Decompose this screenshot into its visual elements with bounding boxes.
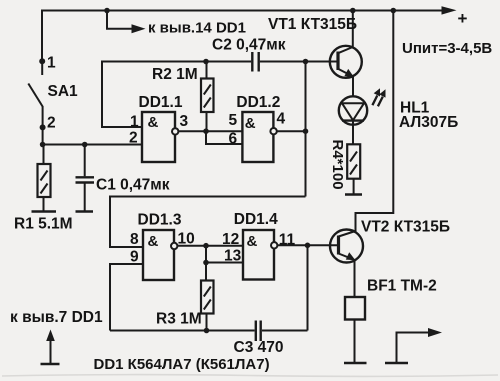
gate DD1.2 xyxy=(242,112,273,162)
switch SA1 lever xyxy=(28,84,42,107)
resistor R1 xyxy=(38,164,51,197)
node junction pin10/pin12 xyxy=(203,243,209,249)
wire pin3 output row xyxy=(179,130,243,132)
wire pin4 output xyxy=(277,130,306,132)
svg-text:8: 8 xyxy=(130,231,139,248)
svg-text:C1 0,47мк: C1 0,47мк xyxy=(96,177,170,194)
wire VT2 emitter to BF1 xyxy=(354,260,356,298)
gate DD1.4 output bubble xyxy=(271,242,277,248)
svg-text:6: 6 xyxy=(229,131,238,148)
arrowhead plus terminal xyxy=(442,6,457,14)
wire R1 bottom stub xyxy=(43,197,45,212)
svg-text:1: 1 xyxy=(47,55,56,72)
capacitor C1 xyxy=(76,176,95,178)
svg-text:2: 2 xyxy=(47,115,56,132)
wire net top row to C2 xyxy=(101,61,251,63)
svg-text:к выв.7 DD1: к выв.7 DD1 xyxy=(10,309,103,326)
svg-text:13: 13 xyxy=(224,248,242,265)
resistor R2 xyxy=(201,79,214,113)
svg-text:R2 1M: R2 1M xyxy=(152,66,198,83)
scan streak bottom xyxy=(2,375,498,377)
gate DD1.3 output bubble xyxy=(171,243,177,249)
svg-text:VT2 КТ315Б: VT2 КТ315Б xyxy=(361,219,450,236)
wire R3 top stub xyxy=(205,263,207,281)
node junction VT2 base xyxy=(305,243,311,249)
node junction C1 xyxy=(82,142,88,148)
terminal bar under R1 xyxy=(32,210,57,213)
wire feedback vertical xyxy=(305,62,307,197)
svg-text:R3 1M: R3 1M xyxy=(156,311,202,328)
wire C2 to VT1 base xyxy=(260,61,338,63)
wire pin6 drop xyxy=(206,131,242,144)
terminal bar under C1 xyxy=(76,210,94,213)
wire pin13 drop xyxy=(206,246,243,263)
wire C1 top stub xyxy=(84,145,86,177)
wire minus terminal arrow xyxy=(397,333,429,364)
svg-text:1: 1 xyxy=(130,114,139,131)
svg-text:4: 4 xyxy=(277,111,286,128)
svg-text:к выв.14 DD1: к выв.14 DD1 xyxy=(148,20,246,37)
gate DD1.1 xyxy=(142,112,175,162)
wire pin7 arrow xyxy=(50,339,52,364)
svg-text:3: 3 xyxy=(180,113,189,130)
svg-text:R1 5.1M: R1 5.1M xyxy=(14,216,73,233)
svg-text:АЛ307Б: АЛ307Б xyxy=(399,114,458,131)
svg-text:DD1.2: DD1.2 xyxy=(236,94,280,111)
wire R2 bottom stub xyxy=(206,112,208,131)
gate DD1.4 xyxy=(243,230,274,280)
node terminal 1 xyxy=(39,58,45,64)
node junction R2 top xyxy=(203,59,209,65)
wire pin10 output xyxy=(178,245,244,247)
svg-text:DD1.3: DD1.3 xyxy=(138,212,182,229)
wire LED to R4 xyxy=(352,121,354,145)
svg-text:VT1 КТ315Б: VT1 КТ315Б xyxy=(268,16,357,33)
node junction rail-left xyxy=(104,8,110,14)
wire SA1 to node xyxy=(42,127,44,144)
wire bottom bus left xyxy=(110,330,255,332)
svg-text:Uпит=3-4,5В: Uпит=3-4,5В xyxy=(402,40,492,57)
terminal bar under R4 xyxy=(345,193,362,196)
svg-text:C3 470: C3 470 xyxy=(234,339,284,356)
svg-text:C2 0,47мк: C2 0,47мк xyxy=(212,37,286,54)
wire VT1 emitter to LED xyxy=(352,76,354,97)
node junction R3 bus xyxy=(204,328,210,334)
wire R1 top stub xyxy=(43,145,45,165)
wire VT1 collector xyxy=(352,11,354,47)
transistor VT1 xyxy=(330,46,362,78)
wire node row to DD1.1 pin2 xyxy=(43,144,142,146)
wire SA1 top xyxy=(41,10,43,62)
svg-text:11: 11 xyxy=(279,232,296,249)
wire lower loop to DD1.3 pin8 xyxy=(110,197,306,248)
wire R4 bottom stub xyxy=(353,179,355,195)
terminal bar pin7 xyxy=(41,363,60,366)
terminal bar under BF1 xyxy=(344,362,367,365)
resistor R4 xyxy=(347,144,360,178)
terminal bar minus xyxy=(385,362,408,365)
LED emission arrows xyxy=(372,96,377,106)
wire bottom bus right xyxy=(262,330,308,332)
gate DD1.2 output bubble xyxy=(270,128,276,134)
wire C1 bottom stub xyxy=(84,184,86,212)
svg-text:&: & xyxy=(148,114,159,131)
node junction rail-VT2 xyxy=(391,8,397,14)
wire pin9 from bus xyxy=(110,264,143,331)
transistor VT2 xyxy=(330,230,363,263)
capacitor C2 xyxy=(251,52,253,72)
svg-text:+: + xyxy=(458,9,468,28)
svg-text:BF1 ТМ-2: BF1 ТМ-2 xyxy=(367,278,437,295)
svg-text:9: 9 xyxy=(130,249,139,266)
svg-text:5: 5 xyxy=(229,112,238,129)
LED HL1 xyxy=(339,96,367,124)
wire pin11 output to VT2 base xyxy=(278,244,339,246)
svg-text:DD1.4: DD1.4 xyxy=(234,211,278,228)
wire R3 bottom stub xyxy=(206,314,208,331)
wire top supply rail xyxy=(42,10,449,12)
node junction pin3/R2/pin5 xyxy=(203,128,209,134)
buzzer BF1 xyxy=(345,297,365,320)
svg-text:2: 2 xyxy=(129,130,138,147)
wire loop to DD1.1 pin1 xyxy=(102,62,142,128)
node junction pin4 feedback xyxy=(303,128,309,134)
wire branch to pin 14 xyxy=(107,11,132,29)
svg-text:&: & xyxy=(245,115,256,132)
svg-text:SA1: SA1 xyxy=(48,83,79,100)
wire stub below terminal 1 xyxy=(41,61,43,75)
node junction VT1 base xyxy=(303,59,309,65)
svg-text:12: 12 xyxy=(222,231,239,248)
node junction rail-VT1 xyxy=(350,8,356,14)
node junction SA1/R1 xyxy=(40,142,46,148)
node junction pin13/R3 xyxy=(203,260,209,266)
resistor R3 xyxy=(201,281,214,314)
capacitor C3 xyxy=(255,321,257,342)
gate DD1.3 xyxy=(143,230,174,280)
svg-text:&: & xyxy=(148,233,159,250)
svg-text:10: 10 xyxy=(178,231,195,248)
wire BF1 bottom stub xyxy=(354,320,356,364)
svg-text:R4*100: R4*100 xyxy=(329,140,346,190)
svg-text:DD1 К564ЛА7 (К561ЛА7): DD1 К564ЛА7 (К561ЛА7) xyxy=(94,356,270,373)
svg-text:DD1.1: DD1.1 xyxy=(139,94,183,111)
wire R2 top stub xyxy=(206,62,208,79)
node terminal 2 xyxy=(40,124,46,130)
wire VT2 collector route to rail xyxy=(356,11,394,232)
svg-text:&: & xyxy=(247,233,258,250)
wire bus to VT2 base xyxy=(307,245,309,330)
gate DD1.1 output bubble xyxy=(172,128,178,134)
